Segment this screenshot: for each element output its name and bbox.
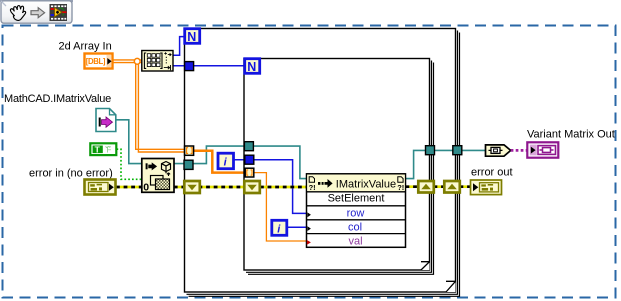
terminal Variant Matrix Out (527, 142, 558, 157)
tunnel teal refnum on outer loop wall (184, 160, 193, 169)
inner for loop border (244, 59, 434, 275)
icon VI (run) (50, 4, 68, 21)
svg-text:row: row (347, 208, 365, 220)
title icons (309, 177, 403, 183)
svg-text:[DBL]: [DBL] (86, 57, 106, 66)
terminal N outer loop count (185, 29, 200, 44)
tunnel orange auto-index on inner loop wall (245, 168, 254, 177)
svg-text:?!: ?! (397, 183, 404, 192)
svg-text:Variant Matrix Out: Variant Matrix Out (527, 129, 615, 141)
terminal MathCAD.IMatrixValue refnum (96, 109, 116, 132)
terminal error out (471, 180, 502, 195)
node To Variant (486, 145, 511, 156)
wire boolean (green dotted) from TF constant to Automation Open (117, 149, 142, 179)
shift register right outer (up arrow) (444, 181, 460, 193)
shift register left outer (down arrow) (184, 181, 200, 193)
tunnel blue (cols) on outer loop wall (185, 62, 194, 71)
invoke node IMatrixValue.SetElement (307, 174, 406, 248)
svg-text:0: 0 (143, 182, 149, 194)
tunnel orange auto-index on outer loop wall (185, 146, 194, 155)
tunnel teal on inner loop right wall (426, 146, 435, 155)
svg-text:2d Array In: 2d Array In (59, 41, 112, 53)
tunnel teal refnum on inner loop wall (244, 142, 253, 151)
svg-text:error out: error out (471, 167, 513, 179)
svg-text:IMatrixValue: IMatrixValue (336, 178, 396, 190)
tools palette window fragment (0, 0, 73, 23)
icon hand tool (10, 6, 25, 21)
svg-text:N: N (247, 60, 256, 74)
svg-text:val: val (348, 236, 362, 248)
wire inner i to col input (287, 226, 307, 228)
svg-text:error in (no error): error in (no error) (29, 168, 113, 180)
wire cols (blue) from Matrix Size to inner N (173, 65, 245, 67)
node Matrix Size (142, 51, 173, 72)
terminal i outer loop iteration (218, 153, 234, 169)
terminal 2d Array In [DBL] (85, 54, 113, 69)
tunnel teal on outer loop right wall (453, 146, 462, 155)
shift register right inner (up arrow) (418, 181, 434, 193)
wire outer i to row input (234, 160, 307, 214)
junction circle on 2D array wire (134, 58, 140, 64)
wire refnum (teal) from MathCAD terminal through Automation Open to invoke node (116, 120, 307, 179)
constant boolean True (90, 143, 116, 155)
wire rows (blue) from Matrix Size to outer N (173, 37, 185, 56)
terminal i inner loop iteration (272, 220, 287, 235)
wire scalar (orange thin) inner tunnel to val input (254, 173, 307, 241)
wire variant (purple dashed) (511, 149, 527, 152)
tunnel blue (i) on inner loop wall (245, 155, 254, 164)
wire 1D array (orange thick) outer tunnel to inner tunnel (193, 151, 245, 173)
node Automation Open (142, 159, 174, 194)
terminal error in (85, 180, 116, 195)
inner loop fold corner (421, 262, 430, 270)
wire 2D array (orange double) from DBL terminal to Matrix Size and down to outer tunnel (113, 59, 142, 61)
svg-text:T: T (95, 145, 101, 155)
icon arrow tool (31, 8, 45, 18)
outer loop fold corner (446, 281, 456, 292)
shift register left inner (down arrow) (244, 181, 259, 193)
svg-text:?!: ?! (309, 183, 316, 192)
error wire segments (yellow with black dashes) (116, 185, 471, 188)
svg-text:MathCAD.IMatrixValue: MathCAD.IMatrixValue (4, 93, 111, 105)
terminal N inner loop count (245, 59, 260, 74)
wire refnum out (teal) from invoke node to To Variant (406, 150, 486, 178)
svg-text:col: col (348, 222, 362, 234)
outer for loop border (185, 29, 460, 297)
svg-text:N: N (187, 30, 196, 44)
svg-text:SetElement: SetElement (328, 192, 385, 204)
